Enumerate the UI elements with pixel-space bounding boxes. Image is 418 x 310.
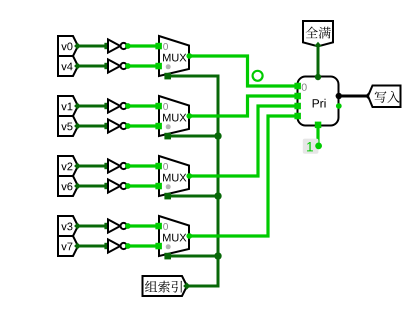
multiplexer MUX3 [155,156,192,199]
output pin 全满 [303,21,333,46]
wire inverter output to MUX [128,164,159,167]
inverter (NOT gate) for v7 [108,239,131,252]
wire Pri output bus to 写入 pin [339,95,369,98]
priority encoder U1 (Pri) [294,74,342,128]
wire select net: vertical distribution line [169,76,218,286]
input pin v1 [58,96,78,116]
input pin v4 [58,56,78,76]
inverter (NOT gate) for v2 [108,159,131,172]
wire select branch to MUX3 [169,195,218,198]
constant 1 [303,139,322,154]
input pin v6 [58,176,78,196]
wire select branch to MUX2 [169,135,218,138]
input pin v3 [58,216,78,236]
wire v7 to inverter [74,243,111,250]
wire v3 to inverter [74,223,111,230]
junction on select net [214,192,221,199]
wire MUX4 output to Pri input 3 [190,116,297,236]
wire inverter output to MUX [128,44,159,47]
wire inverter output to MUX [128,104,159,107]
wire v1 to inverter [74,103,111,110]
junction on select net [214,132,221,139]
wire inverter output to MUX [128,244,159,247]
wire MUX1 output to Pri input 0 [190,56,297,86]
input pin v7 [58,236,78,256]
inverter (NOT gate) for v6 [108,179,131,192]
wire v4 to inverter [74,63,111,70]
unconnected wire-end ring [253,71,263,81]
inverter (NOT gate) for v4 [108,59,131,72]
wire select branch to MUX4 [169,255,218,258]
wire inverter output to MUX [128,124,159,127]
multiplexer MUX4 [155,216,192,259]
inverter (NOT gate) for v3 [108,219,131,232]
wire v5 to inverter [74,123,111,130]
wire MUX3 output to Pri input 2 [190,106,297,176]
wire Pri group-signal to 全满 pin [314,42,322,77]
input pin v0 [58,36,78,56]
input pin 组索引 [143,276,188,296]
junction at 组索引 pin [183,282,190,289]
junction on select net [214,252,221,259]
input pin v2 [58,156,78,176]
wire MUX2 output to Pri input 1 [190,96,297,116]
multiplexer MUX1 [155,36,192,79]
input pin v5 [58,116,78,136]
multiplexer MUX2 [155,96,192,139]
wire v0 to inverter [74,43,111,50]
inverter (NOT gate) for v5 [108,119,131,132]
inverter (NOT gate) for v0 [108,39,131,52]
output pin 写入 [368,86,401,108]
wire v6 to inverter [74,183,111,190]
wire v2 to inverter [74,163,111,170]
wire inverter output to MUX [128,184,159,187]
wire inverter output to MUX [128,64,159,67]
wire inverter output to MUX [128,224,159,227]
inverter (NOT gate) for v1 [108,99,131,112]
wire Pri enable-in to constant 1 [316,126,319,147]
